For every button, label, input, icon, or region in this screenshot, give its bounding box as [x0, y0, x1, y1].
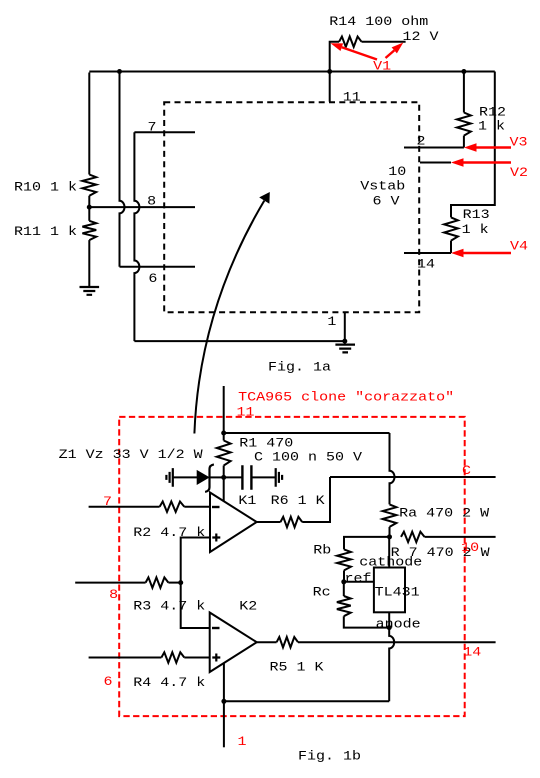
node K1+/K2- junction — [178, 580, 183, 585]
wire to Ra branch — [224, 432, 390, 434]
svg-text:R1 470: R1 470 — [239, 435, 293, 450]
node pin1 ground junction — [342, 339, 347, 344]
resistor R7 — [401, 532, 425, 542]
svg-text:10: 10 — [388, 164, 406, 179]
wire Rb top — [344, 537, 390, 550]
wire R11 to ground — [88, 240, 90, 287]
svg-text:TL431: TL431 — [375, 585, 420, 600]
svg-text:6: 6 — [148, 271, 157, 286]
svg-text:R3 4.7 k: R3 4.7 k — [133, 599, 205, 614]
op-amp K2 — [210, 613, 257, 673]
svg-text:R14 100 ohm: R14 100 ohm — [329, 14, 428, 29]
wire pin1 net under K2 — [223, 650, 225, 701]
svg-text:R4 4.7 k: R4 4.7 k — [133, 675, 205, 690]
probe V3 arrow — [476, 146, 511, 148]
svg-text:8: 8 — [147, 194, 156, 209]
svg-text:R6 1 K: R6 1 K — [271, 493, 325, 508]
node anode junction — [387, 625, 392, 630]
svg-text:14: 14 — [463, 645, 481, 660]
wire TL431 cathode lead — [388, 537, 390, 568]
resistor Ra — [383, 504, 397, 527]
svg-text:V2: V2 — [510, 165, 528, 180]
svg-text:Rb: Rb — [313, 543, 331, 558]
node Ra/R7/Rb junction — [387, 534, 392, 539]
wire right branch to R13 — [451, 72, 495, 218]
zener Z1 — [197, 471, 209, 484]
ground (rotated) at Z1 — [166, 468, 172, 487]
node R10/R11 junction — [87, 205, 92, 210]
resistor R13 — [444, 217, 458, 240]
node R1 top junction — [221, 431, 226, 436]
wire vertical net to pin 6 (hops pin8 wire) — [120, 72, 125, 267]
svg-text:Ra 470 2 W: Ra 470 2 W — [399, 506, 489, 521]
wire R6 to C net — [302, 477, 330, 522]
svg-text:R12: R12 — [479, 105, 506, 120]
probe V2 arrow — [463, 161, 511, 163]
IC dashed box Fig1a — [164, 102, 419, 312]
node top-rail junction A — [117, 69, 122, 74]
annotation curved arrow — [194, 201, 264, 434]
resistor R2 — [160, 502, 185, 512]
node R12 rail junction — [461, 69, 466, 74]
wire pin 1 bottom stub — [223, 701, 225, 747]
wire pin 11 drop — [329, 72, 331, 102]
probe V1 arrow to R14 right — [386, 50, 395, 58]
svg-text:V4: V4 — [510, 238, 528, 253]
resistor Rc — [343, 582, 345, 596]
resistor Rb — [337, 549, 351, 570]
node pin1 bottom junction — [221, 699, 226, 704]
wire K1 plus input — [181, 538, 210, 583]
svg-text:K2: K2 — [239, 599, 257, 614]
wire pin 8 stub — [89, 206, 195, 208]
svg-text:C: C — [462, 463, 471, 478]
ground below R11 — [80, 287, 100, 295]
svg-text:8: 8 — [109, 587, 118, 602]
wire pin 1 drop — [344, 312, 346, 341]
resistor R5 — [277, 637, 298, 647]
svg-text:R10 1 k: R10 1 k — [14, 180, 77, 195]
resistor R14 — [330, 42, 339, 72]
svg-text:2: 2 — [417, 133, 426, 148]
wire bottom to pin 1 — [134, 340, 344, 342]
probe V4 arrow — [463, 252, 511, 254]
node zener/cap junction — [221, 475, 226, 480]
ground (rotated) at C — [276, 468, 282, 487]
svg-text:V1: V1 — [373, 58, 391, 73]
svg-text:6: 6 — [104, 674, 113, 689]
wire R10 bottom lead — [88, 196, 90, 207]
wire K2 output / pin 14 net — [257, 641, 277, 643]
resistor R6 — [257, 521, 281, 523]
op-amp K1 — [210, 493, 257, 553]
ground at pin 1 — [335, 345, 355, 353]
svg-text:R13: R13 — [463, 207, 490, 222]
wire pin 14 stub — [404, 252, 451, 254]
svg-text:1: 1 — [327, 314, 336, 329]
resistor R10 — [82, 175, 96, 196]
wire pin 8 input — [75, 582, 145, 584]
resistor R12 — [463, 72, 465, 113]
svg-text:R11 1 k: R11 1 k — [14, 224, 77, 239]
wire pin 10 stub — [420, 162, 451, 164]
svg-text:7: 7 — [148, 120, 157, 135]
wire bottom ground net — [224, 700, 389, 702]
wire C net — [330, 476, 496, 478]
svg-text:anode: anode — [376, 617, 421, 632]
wire pin1 net under K1 — [223, 477, 225, 512]
svg-text:Fig. 1b: Fig. 1b — [298, 749, 361, 764]
svg-text:Z1 Vz 33 V 1/2 W: Z1 Vz 33 V 1/2 W — [59, 447, 203, 462]
wire pin 7 input — [89, 506, 160, 508]
wire pin 7 stub — [134, 131, 195, 133]
resistor R4 — [161, 652, 184, 662]
probe V1 arrow to R14 left — [342, 47, 377, 59]
capacitor C — [224, 476, 243, 478]
node R14 rail junction — [327, 69, 332, 74]
resistor R11 — [88, 207, 90, 221]
wire K2 minus input — [181, 583, 210, 628]
svg-text:V3: V3 — [510, 135, 528, 150]
resistor R3 — [146, 577, 169, 587]
wire TL431 anode lead — [388, 612, 390, 627]
svg-text:C 100 n 50 V: C 100 n 50 V — [254, 450, 362, 465]
wire left drop to R10 — [88, 73, 90, 175]
wire ref lead — [344, 581, 374, 583]
node ref junction — [341, 579, 346, 584]
svg-text:12 V: 12 V — [403, 29, 439, 44]
svg-text:Fig. 1a: Fig. 1a — [268, 359, 331, 374]
wire anode drop (hops pin14 net) — [389, 628, 394, 702]
svg-text:Rc: Rc — [313, 584, 331, 599]
svg-text:ref: ref — [345, 571, 372, 586]
red dashed box Fig1b — [119, 417, 465, 716]
TL431 U1 — [374, 568, 405, 613]
wire vertical net pin7-to-bottom (hops pin8 and pin6 wires) — [134, 132, 139, 341]
resistor R1 — [223, 433, 225, 441]
svg-text:1: 1 — [238, 734, 247, 749]
svg-text:6 V: 6 V — [373, 194, 400, 209]
wire pin 6 input — [89, 657, 162, 659]
wire top 12V rail — [89, 71, 495, 73]
svg-text:10: 10 — [461, 540, 479, 555]
wire pin 6 stub — [120, 266, 196, 268]
wire pin 2 stub — [404, 147, 464, 149]
wire Z1 anode lead — [173, 476, 197, 478]
svg-text:1 k: 1 k — [462, 222, 489, 237]
svg-text:R5 1 K: R5 1 K — [270, 660, 324, 675]
svg-text:TCA965 clone "corazzato": TCA965 clone "corazzato" — [238, 390, 454, 405]
wire Ra top (hops C net) — [390, 433, 395, 504]
svg-text:Vstab: Vstab — [360, 179, 405, 194]
svg-text:K1: K1 — [238, 493, 256, 508]
svg-text:7: 7 — [103, 494, 112, 509]
wire pin 11 vertical — [223, 386, 225, 433]
svg-text:1 k: 1 k — [478, 119, 505, 134]
